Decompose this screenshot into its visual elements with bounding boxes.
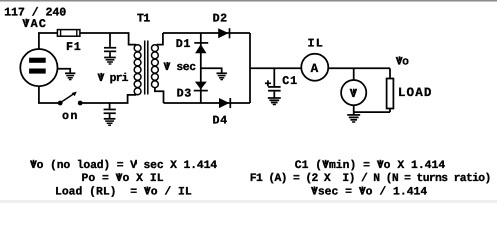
svg-text:Vo (no load) = V sec X 1.414: Vo (no load) = V sec X 1.414: [30, 159, 217, 172]
wire secondary top lead: [157, 33, 163, 45]
diode D4: [219, 98, 230, 108]
AC source V1: [20, 49, 57, 86]
wire bridge right column: [249, 33, 251, 103]
wire secondary bottom lead: [155, 88, 164, 103]
svg-text:T1: T1: [137, 11, 150, 25]
wire load bottom stub: [389, 109, 391, 113]
transformer T1 core: [145, 41, 148, 95]
diode D3: [194, 82, 208, 91]
ground under C1: [268, 98, 281, 105]
svg-text:Vsec = Vo / 1.414: Vsec = Vo / 1.414: [311, 185, 427, 198]
wire bridge top rail: [163, 32, 250, 34]
formula line Vo no load: [30, 159, 217, 172]
label IL: [308, 37, 324, 51]
label C1: [282, 74, 298, 88]
formula line C1 Vmin: [295, 159, 446, 172]
bridge center tap ground: [201, 68, 227, 79]
label D2: [213, 12, 228, 26]
wire bridge center column: [200, 33, 202, 103]
formula line Load RL: [55, 185, 192, 198]
wire ammeter to load: [328, 67, 390, 69]
transformer T1 primary winding: [134, 45, 141, 95]
label Vo: [396, 56, 409, 68]
formula line F1 A: [250, 172, 491, 185]
label D1: [176, 37, 191, 51]
wire fuse to transformer: [80, 33, 136, 45]
voltmeter V: [341, 80, 366, 105]
wire bridge bottom rail: [164, 102, 251, 104]
svg-text:C1: C1: [282, 74, 298, 88]
capacitor C1: [268, 68, 281, 97]
svg-text:A: A: [311, 62, 319, 76]
svg-text:V pri: V pri: [98, 72, 129, 85]
label D4: [213, 114, 228, 128]
svg-text:on: on: [62, 109, 79, 123]
svg-text:C1 (Vmin) = Vo X 1.414: C1 (Vmin) = Vo X 1.414: [295, 159, 446, 172]
label F1: [66, 40, 81, 54]
capacitor to ground on primary top rail: [104, 33, 116, 57]
svg-text:F1 (A) = (2 X I) / N (N = tur: F1 (A) = (2 X I) / N (N = turns ratio): [250, 172, 491, 185]
fuse F1: [57, 30, 80, 37]
transformer T1 secondary winding: [152, 45, 159, 88]
ground at AC source right: [58, 69, 76, 80]
svg-text:V sec: V sec: [164, 62, 197, 74]
formula line Vsec: [311, 185, 427, 198]
label LOAD: [398, 86, 433, 100]
label V pri: [98, 72, 129, 85]
formula line Po: [82, 173, 164, 185]
wire voltmeter top: [353, 68, 355, 80]
label 117/240: [4, 5, 66, 19]
switch SW1: [58, 92, 83, 106]
diode D2: [218, 28, 229, 38]
wire voltmeter bottom: [353, 105, 355, 112]
svg-text:D1: D1: [176, 37, 191, 51]
wire bridge output to ammeter: [250, 67, 302, 69]
wire source top to fuse: [39, 33, 58, 49]
svg-text:D3: D3: [177, 87, 192, 101]
label T1: [137, 11, 150, 25]
ground under voltmeter: [347, 112, 360, 122]
label on: [62, 109, 79, 123]
label VAC: [22, 17, 47, 31]
ground under primary bottom cap: [104, 119, 116, 126]
diode D1: [194, 43, 208, 53]
svg-text:D4: D4: [213, 114, 228, 128]
top border line: [0, 0, 497, 2]
capacitor to ground on primary bottom rail: [104, 103, 116, 119]
svg-text:F1: F1: [66, 40, 81, 54]
wire to load top: [389, 68, 391, 78]
resistor LOAD: [387, 79, 394, 109]
bottom gray strip: [0, 200, 497, 203]
wire source bottom to switch: [39, 86, 58, 103]
ground under primary top cap: [104, 58, 116, 65]
svg-text:Po = Vo X IL: Po = Vo X IL: [82, 173, 164, 185]
ammeter A: [301, 54, 328, 81]
wire switch to transformer primary bottom: [82, 95, 136, 103]
svg-text:IL: IL: [308, 37, 324, 51]
plus sign for C1: [265, 80, 271, 86]
svg-text:D2: D2: [213, 12, 228, 26]
label V sec: [164, 62, 197, 74]
svg-text:Load (RL) = Vo / IL: Load (RL) = Vo / IL: [55, 185, 192, 198]
svg-text:Vo: Vo: [396, 56, 409, 68]
wire load bottom return: [354, 111, 390, 113]
label D3: [177, 87, 192, 101]
svg-text:LOAD: LOAD: [398, 86, 433, 100]
